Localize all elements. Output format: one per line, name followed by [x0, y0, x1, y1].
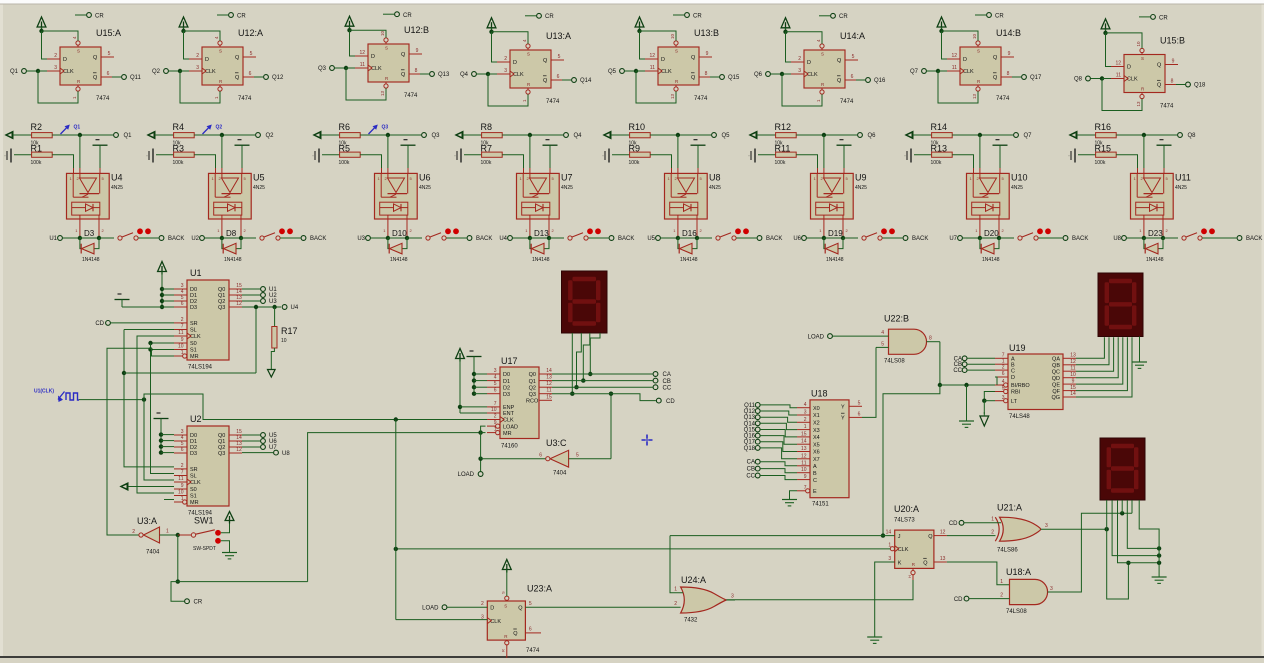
- svg-text:7: 7: [494, 401, 497, 407]
- svg-text:7474: 7474: [96, 96, 110, 102]
- svg-text:U11: U11: [1175, 173, 1191, 183]
- svg-text:CD: CD: [666, 399, 675, 405]
- svg-text:D2: D2: [503, 385, 510, 391]
- svg-text:X0: X0: [813, 406, 820, 412]
- svg-text:3: 3: [1045, 523, 1048, 529]
- svg-text:12: 12: [236, 301, 242, 307]
- svg-text:Q18: Q18: [744, 446, 756, 452]
- svg-text:Q1: Q1: [10, 69, 19, 75]
- svg-text:X2: X2: [813, 421, 820, 427]
- svg-text:R4: R4: [173, 122, 185, 132]
- svg-text:10: 10: [972, 33, 977, 39]
- svg-text:ENP: ENP: [503, 405, 515, 411]
- svg-text:Q0: Q0: [529, 372, 536, 378]
- svg-text:QG: QG: [1051, 395, 1060, 401]
- svg-text:Q4: Q4: [460, 72, 469, 78]
- svg-text:74LS08: 74LS08: [884, 359, 905, 365]
- svg-text:QC: QC: [1052, 369, 1060, 375]
- svg-text:2: 2: [181, 317, 184, 323]
- svg-text:7474: 7474: [840, 99, 854, 105]
- svg-text:BACK: BACK: [618, 236, 634, 242]
- svg-text:Q: Q: [518, 606, 523, 612]
- svg-text:R12: R12: [775, 122, 792, 132]
- svg-text:7474: 7474: [238, 96, 252, 102]
- svg-text:4N25: 4N25: [561, 185, 573, 191]
- svg-text:4: 4: [804, 402, 807, 408]
- svg-text:Q16: Q16: [874, 78, 886, 84]
- svg-text:CR: CR: [995, 14, 1004, 20]
- svg-text:CD: CD: [95, 321, 104, 327]
- svg-text:Q16: Q16: [744, 434, 756, 440]
- svg-text:CA: CA: [747, 460, 755, 466]
- svg-text:U10: U10: [1011, 173, 1028, 183]
- svg-text:1N4148: 1N4148: [82, 257, 100, 263]
- svg-text:SW-SPDT: SW-SPDT: [193, 546, 216, 552]
- svg-text:4N25: 4N25: [855, 185, 867, 191]
- svg-text:BACK: BACK: [168, 236, 184, 242]
- svg-text:D1: D1: [503, 379, 510, 385]
- svg-text:9: 9: [181, 483, 184, 489]
- svg-text:Q8: Q8: [1188, 133, 1197, 139]
- svg-text:7404: 7404: [146, 550, 160, 556]
- svg-text:A: A: [813, 464, 817, 470]
- svg-text:2: 2: [798, 56, 801, 62]
- svg-text:Q18: Q18: [1194, 83, 1206, 89]
- svg-text:1N4148: 1N4148: [532, 257, 550, 263]
- svg-text:D: D: [490, 606, 494, 612]
- svg-text:7474: 7474: [526, 648, 540, 654]
- svg-text:U14:A: U14:A: [840, 31, 865, 41]
- svg-text:U6: U6: [419, 173, 431, 183]
- svg-text:CLK: CLK: [371, 66, 382, 72]
- svg-text:MR: MR: [190, 500, 199, 506]
- svg-text:1: 1: [991, 517, 994, 523]
- svg-text:Q: Q: [923, 561, 928, 567]
- svg-text:Q17: Q17: [1030, 75, 1042, 81]
- svg-text:Q15: Q15: [728, 75, 740, 81]
- svg-text:Q3: Q3: [318, 66, 327, 72]
- svg-text:S0: S0: [190, 487, 197, 493]
- svg-text:13: 13: [1136, 101, 1141, 107]
- svg-text:Y: Y: [841, 405, 845, 411]
- svg-text:U24:A: U24:A: [681, 575, 706, 585]
- svg-text:S1: S1: [190, 348, 197, 354]
- svg-text:100k: 100k: [339, 160, 350, 166]
- svg-text:Q13: Q13: [744, 415, 756, 421]
- svg-text:SW1: SW1: [194, 516, 214, 526]
- svg-text:1N4148: 1N4148: [826, 257, 844, 263]
- svg-text:5: 5: [558, 54, 561, 60]
- svg-text:S: S: [504, 604, 507, 609]
- svg-text:Q11: Q11: [744, 403, 756, 409]
- svg-text:Q13: Q13: [438, 72, 450, 78]
- svg-text:Q5: Q5: [608, 69, 617, 75]
- svg-text:1N4148: 1N4148: [1146, 257, 1164, 263]
- svg-text:D: D: [63, 57, 67, 63]
- svg-text:R6: R6: [339, 122, 351, 132]
- svg-text:7474: 7474: [404, 93, 418, 99]
- svg-text:3: 3: [504, 68, 507, 74]
- svg-text:74160: 74160: [501, 444, 518, 450]
- svg-text:R2: R2: [31, 122, 43, 132]
- svg-text:7474: 7474: [546, 99, 560, 105]
- svg-text:R1: R1: [31, 143, 43, 153]
- svg-text:4N25: 4N25: [253, 185, 265, 191]
- svg-text:CLK: CLK: [190, 334, 201, 340]
- svg-text:Q4: Q4: [574, 133, 583, 139]
- svg-text:Q2: Q2: [216, 125, 223, 131]
- svg-text:U18: U18: [811, 389, 828, 399]
- svg-text:CC: CC: [663, 385, 672, 391]
- svg-text:SL: SL: [190, 328, 197, 334]
- svg-text:CLK: CLK: [63, 69, 74, 75]
- svg-text:U5: U5: [647, 236, 655, 242]
- svg-text:U13:B: U13:B: [694, 28, 719, 38]
- svg-text:Q15: Q15: [744, 428, 756, 434]
- svg-text:CLK: CLK: [661, 69, 672, 75]
- svg-text:9: 9: [804, 474, 807, 480]
- svg-text:U13:A: U13:A: [546, 31, 571, 41]
- svg-text:Q: Q: [993, 55, 998, 61]
- svg-text:CR: CR: [237, 14, 246, 20]
- svg-text:H: H: [907, 575, 912, 578]
- svg-text:Q6: Q6: [868, 133, 877, 139]
- svg-text:CC: CC: [746, 474, 755, 480]
- svg-text:U21:A: U21:A: [997, 503, 1022, 513]
- svg-text:100k: 100k: [1095, 160, 1106, 166]
- svg-text:MR: MR: [503, 431, 512, 437]
- svg-text:Q6: Q6: [754, 72, 763, 78]
- svg-text:D: D: [963, 57, 967, 63]
- svg-text:X7: X7: [813, 457, 820, 463]
- svg-text:10: 10: [281, 338, 287, 344]
- svg-text:CC: CC: [953, 368, 962, 374]
- svg-text:11: 11: [952, 65, 957, 71]
- svg-text:CB: CB: [663, 379, 671, 385]
- svg-text:D: D: [205, 57, 209, 63]
- svg-text:Q11: Q11: [130, 75, 142, 81]
- svg-text:X3: X3: [813, 428, 820, 434]
- svg-text:1: 1: [181, 350, 184, 356]
- svg-text:2: 2: [1002, 364, 1005, 370]
- svg-text:13: 13: [940, 556, 946, 562]
- svg-text:10: 10: [178, 490, 184, 496]
- svg-text:X5: X5: [813, 442, 820, 448]
- svg-text:LT: LT: [1011, 399, 1018, 405]
- svg-text:U8: U8: [1113, 236, 1121, 242]
- svg-text:D3: D3: [190, 451, 197, 457]
- svg-text:9: 9: [181, 337, 184, 343]
- svg-text:S: S: [501, 591, 506, 594]
- svg-text:CR: CR: [545, 14, 554, 20]
- svg-text:U4: U4: [291, 305, 299, 311]
- svg-text:Q2: Q2: [152, 69, 161, 75]
- svg-text:4N25: 4N25: [111, 185, 123, 191]
- svg-text:3: 3: [731, 594, 734, 600]
- svg-text:12: 12: [951, 53, 957, 59]
- svg-text:13: 13: [380, 90, 385, 96]
- svg-text:74LS86: 74LS86: [997, 548, 1018, 554]
- svg-text:LOAD: LOAD: [458, 472, 475, 478]
- svg-text:9: 9: [1172, 59, 1175, 65]
- svg-text:3: 3: [798, 68, 801, 74]
- svg-text:S1: S1: [190, 494, 197, 500]
- svg-text:R16: R16: [1095, 122, 1112, 132]
- svg-text:QD: QD: [1052, 376, 1060, 382]
- svg-text:12: 12: [801, 453, 807, 459]
- svg-text:2: 2: [804, 417, 807, 423]
- svg-text:Q: Q: [543, 58, 548, 64]
- svg-text:D3: D3: [503, 392, 510, 398]
- svg-text:5: 5: [576, 453, 579, 459]
- svg-text:R13: R13: [931, 143, 948, 153]
- svg-text:4N25: 4N25: [419, 185, 431, 191]
- svg-text:S: S: [675, 49, 678, 54]
- svg-text:1N4148: 1N4148: [390, 257, 408, 263]
- svg-text:S: S: [1141, 56, 1144, 61]
- svg-text:4N25: 4N25: [709, 185, 721, 191]
- svg-text:13: 13: [670, 93, 675, 99]
- svg-text:7432: 7432: [684, 618, 698, 624]
- svg-text:U3:A: U3:A: [137, 516, 157, 526]
- svg-text:6: 6: [529, 627, 532, 633]
- svg-text:U5: U5: [253, 173, 265, 183]
- svg-text:5: 5: [852, 54, 855, 60]
- svg-text:BI/RBO: BI/RBO: [1011, 383, 1030, 389]
- svg-text:8: 8: [929, 336, 932, 342]
- svg-text:U15:A: U15:A: [96, 28, 121, 38]
- svg-text:U4: U4: [111, 173, 123, 183]
- svg-text:D23: D23: [1148, 229, 1163, 238]
- svg-text:·: ·: [602, 154, 604, 160]
- svg-text:U15:B: U15:B: [1160, 36, 1185, 46]
- svg-text:D10: D10: [392, 229, 407, 238]
- svg-text:Q: Q: [691, 55, 696, 61]
- svg-text:U17: U17: [501, 356, 518, 366]
- svg-text:·: ·: [312, 154, 314, 160]
- svg-text:R10: R10: [629, 122, 646, 132]
- svg-text:S: S: [821, 52, 824, 57]
- svg-text:CLK: CLK: [205, 69, 216, 75]
- svg-text:CLK: CLK: [490, 619, 501, 625]
- svg-text:S: S: [77, 49, 80, 54]
- svg-text:2: 2: [674, 601, 677, 607]
- svg-text:10: 10: [178, 344, 184, 350]
- svg-text:D8: D8: [226, 229, 237, 238]
- svg-text:CA: CA: [663, 372, 671, 378]
- svg-text:D: D: [1011, 375, 1015, 381]
- svg-text:3: 3: [888, 556, 891, 562]
- svg-text:6: 6: [1002, 371, 1005, 377]
- svg-text:4N25: 4N25: [1175, 185, 1187, 191]
- svg-text:11: 11: [801, 460, 806, 466]
- svg-text:4: 4: [881, 330, 884, 336]
- svg-text:U1: U1: [190, 268, 202, 278]
- svg-text:2: 2: [481, 601, 484, 607]
- svg-text:·: ·: [904, 154, 906, 160]
- svg-text:3: 3: [494, 368, 497, 374]
- svg-text:1: 1: [1000, 579, 1003, 585]
- svg-text:SR: SR: [190, 321, 198, 327]
- svg-text:14: 14: [886, 530, 892, 536]
- svg-text:CD: CD: [954, 597, 963, 603]
- svg-text:5: 5: [529, 601, 532, 607]
- svg-text:S: S: [527, 52, 530, 57]
- svg-text:3: 3: [804, 410, 807, 416]
- svg-text:5: 5: [108, 51, 111, 57]
- svg-text:BACK: BACK: [310, 236, 326, 242]
- svg-text:QF: QF: [1052, 389, 1060, 395]
- svg-text:6: 6: [858, 411, 861, 417]
- svg-text:CR: CR: [194, 599, 203, 605]
- svg-text:Q2: Q2: [266, 133, 275, 139]
- svg-text:U19: U19: [1009, 343, 1026, 353]
- svg-text:5: 5: [858, 400, 861, 406]
- svg-text:Q17: Q17: [744, 440, 756, 446]
- svg-text:R9: R9: [629, 143, 641, 153]
- svg-text:7: 7: [181, 324, 184, 330]
- svg-text:Q: Q: [691, 75, 696, 81]
- svg-text:4: 4: [494, 375, 497, 381]
- svg-text:5: 5: [881, 341, 884, 347]
- svg-text:CR: CR: [693, 14, 702, 20]
- svg-text:CLK: CLK: [898, 547, 909, 553]
- svg-text:U7: U7: [561, 173, 573, 183]
- svg-text:Q1: Q1: [74, 125, 81, 131]
- svg-text:12: 12: [359, 50, 365, 56]
- svg-text:8: 8: [1007, 71, 1010, 77]
- svg-text:6: 6: [181, 301, 184, 307]
- svg-text:U18:A: U18:A: [1006, 567, 1031, 577]
- svg-text:6: 6: [557, 74, 560, 80]
- svg-text:R7: R7: [481, 143, 493, 153]
- svg-text:6: 6: [851, 74, 854, 80]
- svg-text:CLK: CLK: [1127, 77, 1138, 83]
- svg-text:QB: QB: [1052, 363, 1060, 369]
- svg-text:3: 3: [1002, 395, 1005, 401]
- svg-text:X1: X1: [813, 413, 820, 419]
- svg-text:CLK: CLK: [190, 480, 201, 486]
- svg-text:1: 1: [804, 424, 807, 430]
- svg-text:2: 2: [1000, 592, 1003, 598]
- svg-text:Q: Q: [837, 58, 842, 64]
- svg-text:CR: CR: [403, 13, 412, 19]
- svg-text:100k: 100k: [481, 160, 492, 166]
- svg-text:Y: Y: [841, 416, 845, 422]
- svg-text:11: 11: [650, 65, 655, 71]
- svg-text:Q12: Q12: [272, 75, 284, 81]
- svg-text:D: D: [371, 54, 375, 60]
- svg-text:3: 3: [196, 65, 199, 71]
- svg-text:11: 11: [178, 330, 183, 336]
- svg-text:Q: Q: [401, 52, 406, 58]
- svg-text:·: ·: [454, 154, 456, 160]
- svg-text:3: 3: [1050, 586, 1053, 592]
- svg-text:9: 9: [416, 48, 419, 54]
- svg-text:2: 2: [196, 53, 199, 59]
- svg-text:Q: Q: [235, 55, 240, 61]
- svg-text:U1(CLK): U1(CLK): [34, 389, 54, 395]
- svg-text:R: R: [501, 649, 506, 652]
- svg-text:9: 9: [1072, 378, 1075, 384]
- svg-text:D: D: [513, 60, 517, 66]
- svg-text:13: 13: [972, 93, 977, 99]
- svg-text:C: C: [813, 478, 817, 484]
- svg-text:CB: CB: [747, 467, 755, 473]
- svg-text:ENT: ENT: [503, 411, 515, 417]
- svg-text:·: ·: [1068, 154, 1070, 160]
- svg-text:U2: U2: [191, 236, 199, 242]
- svg-text:12: 12: [546, 381, 552, 387]
- svg-text:QE: QE: [1052, 382, 1060, 388]
- svg-text:14: 14: [1070, 391, 1076, 397]
- svg-text:U3: U3: [269, 299, 277, 305]
- svg-text:R8: R8: [481, 122, 493, 132]
- svg-text:CR: CR: [1159, 15, 1168, 21]
- svg-text:Q: Q: [401, 72, 406, 78]
- svg-text:R14: R14: [931, 122, 948, 132]
- svg-text:Q3: Q3: [218, 451, 225, 457]
- svg-text:4: 4: [1002, 379, 1005, 385]
- svg-text:100k: 100k: [629, 160, 640, 166]
- svg-text:U12:A: U12:A: [238, 28, 263, 38]
- svg-text:11: 11: [1116, 73, 1121, 79]
- svg-text:D: D: [1127, 65, 1131, 71]
- svg-text:R17: R17: [281, 326, 298, 336]
- svg-text:11: 11: [178, 476, 183, 482]
- svg-text:S0: S0: [190, 341, 197, 347]
- svg-text:BACK: BACK: [912, 236, 928, 242]
- svg-text:Q5: Q5: [722, 133, 731, 139]
- svg-text:2: 2: [991, 529, 994, 535]
- svg-text:U12:B: U12:B: [404, 25, 429, 35]
- svg-text:·: ·: [748, 154, 750, 160]
- svg-text:2: 2: [54, 53, 57, 59]
- svg-text:11: 11: [1070, 365, 1075, 371]
- svg-text:14: 14: [801, 439, 807, 445]
- svg-text:BACK: BACK: [1072, 236, 1088, 242]
- svg-text:Q7: Q7: [910, 69, 919, 75]
- svg-text:U9: U9: [855, 173, 867, 183]
- svg-text:1: 1: [494, 427, 497, 433]
- svg-text:15: 15: [546, 394, 552, 400]
- svg-text:6: 6: [107, 71, 110, 77]
- svg-text:U4: U4: [499, 236, 507, 242]
- svg-text:Q: Q: [993, 75, 998, 81]
- svg-text:Q: Q: [928, 534, 933, 540]
- svg-text:6: 6: [181, 447, 184, 453]
- svg-text:7474: 7474: [694, 96, 708, 102]
- svg-text:9: 9: [494, 420, 497, 426]
- svg-text:S: S: [219, 49, 222, 54]
- svg-text:SR: SR: [190, 467, 198, 473]
- svg-text:CLK: CLK: [503, 418, 514, 424]
- svg-text:Q3: Q3: [529, 392, 536, 398]
- svg-text:10: 10: [1136, 41, 1141, 47]
- svg-text:100k: 100k: [931, 160, 942, 166]
- svg-text:100k: 100k: [775, 160, 786, 166]
- svg-text:7: 7: [181, 470, 184, 476]
- svg-text:1N4148: 1N4148: [680, 257, 698, 263]
- svg-text:Q3: Q3: [382, 125, 389, 131]
- svg-text:U3: U3: [357, 236, 365, 242]
- svg-text:Q: Q: [837, 78, 842, 84]
- svg-text:Q1: Q1: [124, 133, 133, 139]
- svg-text:CD: CD: [949, 521, 958, 527]
- svg-text:Q2: Q2: [529, 385, 536, 391]
- svg-text:D: D: [807, 60, 811, 66]
- svg-text:U2: U2: [190, 414, 202, 424]
